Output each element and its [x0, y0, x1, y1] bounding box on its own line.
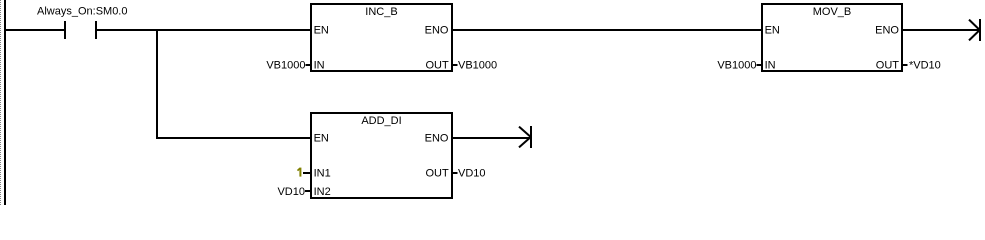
svg-text:ADD_DI: ADD_DI: [361, 115, 401, 127]
svg-text:EN: EN: [314, 25, 329, 37]
svg-text:EN: EN: [765, 25, 780, 37]
contact Always_On:SM0.0 left bar: [64, 21, 66, 39]
branch wire horizontal to ADD_DI EN: [156, 137, 310, 139]
wire: INC_B ENO to MOV_B EN: [453, 29, 761, 31]
function block INC_B: [311, 4, 452, 72]
svg-text:VD10: VD10: [277, 186, 305, 198]
svg-text:ENO: ENO: [425, 133, 449, 145]
operand *VD10 (MOV_B OUT): [903, 60, 941, 72]
svg-text:OUT: OUT: [425, 168, 449, 180]
svg-text:Always_On:SM0.0: Always_On:SM0.0: [37, 6, 127, 18]
svg-text:MOV_B: MOV_B: [813, 6, 852, 18]
svg-text:ENO: ENO: [875, 25, 899, 37]
svg-text:INC_B: INC_B: [365, 6, 397, 18]
svg-text:ENO: ENO: [425, 25, 449, 37]
open-wire arrow (network row 1, right edge): [969, 19, 981, 41]
svg-text:IN: IN: [314, 60, 325, 72]
network margin dotted line: [0, 0, 2, 205]
svg-text:IN2: IN2: [314, 186, 331, 198]
branch wire vertical (junction at x=156): [156, 29, 158, 139]
wire: ADD_DI ENO to arrow: [453, 137, 530, 139]
operand VB1000 (INC_B OUT): [453, 60, 497, 72]
operand constant 1 (ADD_DI IN1): [298, 168, 311, 177]
wire: contact to INC_B EN: [97, 29, 310, 31]
operand VD10 (ADD_DI IN2): [277, 186, 310, 198]
svg-text:VB1000: VB1000: [717, 60, 756, 72]
svg-text:VD10: VD10: [458, 168, 486, 180]
svg-text:IN1: IN1: [314, 168, 331, 180]
svg-text:OUT: OUT: [876, 60, 900, 72]
svg-text:IN: IN: [765, 60, 776, 72]
svg-text:EN: EN: [314, 133, 329, 145]
svg-text:OUT: OUT: [425, 60, 449, 72]
function block MOV_B: [762, 4, 902, 72]
operand VB1000 (MOV_B IN): [717, 60, 761, 72]
wire: MOV_B ENO to right arrow: [903, 29, 979, 31]
svg-text:*VD10: *VD10: [909, 60, 941, 72]
operand VB1000 (INC_B IN): [266, 60, 310, 72]
contact Always_On:SM0.0 right bar: [95, 21, 97, 39]
function block ADD_DI: [311, 113, 452, 198]
open-wire arrow (network row 2): [519, 126, 532, 148]
wire: rail to contact: [6, 29, 64, 31]
svg-text:VB1000: VB1000: [458, 60, 497, 72]
operand VD10 (ADD_DI OUT): [453, 168, 486, 180]
svg-text:VB1000: VB1000: [266, 60, 305, 72]
left power rail: [4, 0, 6, 205]
